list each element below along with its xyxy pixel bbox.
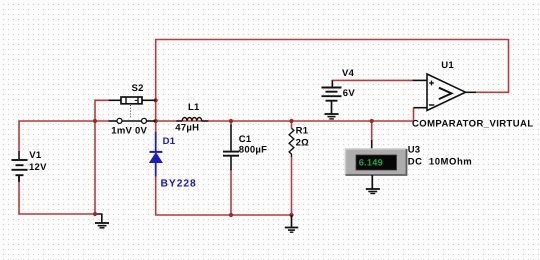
svg-text:6V: 6V xyxy=(343,88,356,99)
node junction bottom-left ground xyxy=(93,212,97,216)
svg-text:S2: S2 xyxy=(132,83,144,94)
wire V4 to op-amp plus input xyxy=(332,80,412,87)
ground under V4 xyxy=(325,101,339,119)
wire C1 bottom xyxy=(230,170,232,216)
battery V4 xyxy=(322,80,342,100)
wire V1 bottom rail xyxy=(19,182,95,215)
svg-text:BY228: BY228 xyxy=(161,178,197,189)
node junction C1/rail xyxy=(229,119,233,123)
wire S2 branch vertical xyxy=(95,100,109,214)
node junction diode/rail xyxy=(154,119,158,123)
diode D1 xyxy=(150,132,163,177)
wire diode branch vertical xyxy=(155,100,157,132)
ground under U3 xyxy=(366,175,380,194)
op-amp U1 xyxy=(413,74,477,111)
svg-text:2Ω: 2Ω xyxy=(296,137,310,148)
svg-text:800µF: 800µF xyxy=(239,145,267,156)
node junction R1/rail xyxy=(289,119,293,123)
svg-text:COMPARATOR_VIRTUAL: COMPARATOR_VIRTUAL xyxy=(412,118,534,129)
switch S2 xyxy=(109,97,156,118)
node junction R1 bottom ground xyxy=(289,213,293,217)
wire R1 bottom xyxy=(291,157,293,216)
wire minus input branch xyxy=(413,108,415,121)
svg-text:47µH: 47µH xyxy=(175,122,199,133)
svg-text:U1: U1 xyxy=(441,60,454,71)
svg-text:6.149: 6.149 xyxy=(359,158,383,168)
wire C1 branch xyxy=(230,121,232,126)
svg-text:V4: V4 xyxy=(342,68,355,79)
wire U3 branch xyxy=(371,121,373,140)
svg-text:DC 10MOhm: DC 10MOhm xyxy=(408,157,473,168)
svg-text:D1: D1 xyxy=(163,136,176,147)
wire feedback loop xyxy=(156,40,509,101)
svg-text:1mV 0V: 1mV 0V xyxy=(111,125,147,136)
ground under R1 xyxy=(285,215,298,232)
node junction S2 top xyxy=(154,98,158,102)
svg-text:C1: C1 xyxy=(239,134,252,145)
battery V1 xyxy=(12,151,28,182)
source 1mV 0V xyxy=(109,118,156,123)
wire U3 lead black xyxy=(371,140,373,150)
inductor L1 xyxy=(176,118,208,122)
wire V1 top to rail xyxy=(19,121,109,151)
wire main rail right of source xyxy=(156,120,414,122)
wire diode to bottom rail xyxy=(156,176,292,215)
svg-text:U3: U3 xyxy=(408,145,421,156)
node junction U3/rail xyxy=(370,119,374,123)
multimeter U3 xyxy=(346,149,407,175)
capacitor C1 xyxy=(223,125,239,171)
svg-text:12V: 12V xyxy=(29,162,47,173)
svg-text:L1: L1 xyxy=(188,102,200,113)
node junction C1 bottom xyxy=(229,213,233,217)
wire R1 branch xyxy=(291,121,293,129)
wire ground stub black bottom-left xyxy=(95,214,102,223)
svg-text:V1: V1 xyxy=(29,150,42,161)
ground bottom-left xyxy=(95,223,109,228)
node junction S2/rail xyxy=(93,119,97,123)
svg-text:R1: R1 xyxy=(296,126,309,137)
resistor R1 xyxy=(289,128,294,157)
